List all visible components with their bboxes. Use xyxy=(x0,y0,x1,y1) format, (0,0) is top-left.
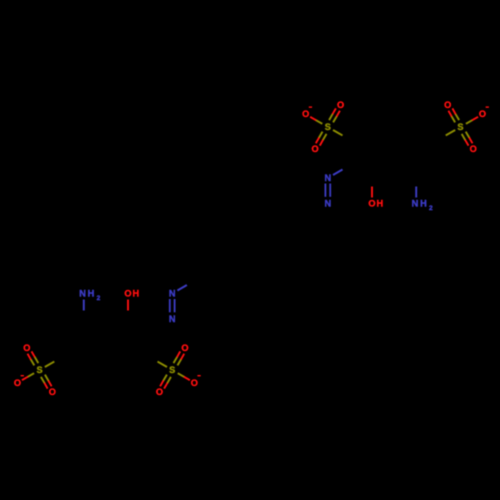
svg-text:S: S xyxy=(325,122,331,132)
svg-text:H: H xyxy=(132,289,139,299)
svg-text:O: O xyxy=(191,378,198,388)
svg-text:N: N xyxy=(79,289,86,299)
svg-text:N: N xyxy=(324,199,331,209)
svg-text:S: S xyxy=(169,365,175,375)
svg-text:H: H xyxy=(420,199,427,209)
svg-text:O: O xyxy=(312,144,319,154)
svg-text:N: N xyxy=(412,199,419,209)
svg-text:O: O xyxy=(479,109,486,119)
svg-text:O: O xyxy=(156,387,163,397)
svg-text:H: H xyxy=(376,199,383,209)
svg-text:N: N xyxy=(324,173,331,183)
svg-text:S: S xyxy=(457,122,463,132)
svg-text:O: O xyxy=(302,109,309,119)
svg-text:2: 2 xyxy=(429,205,433,212)
svg-text:O: O xyxy=(23,343,30,353)
svg-text:N: N xyxy=(169,289,176,299)
svg-text:O: O xyxy=(124,289,131,299)
svg-text:H: H xyxy=(88,289,95,299)
svg-text:O: O xyxy=(337,100,344,110)
svg-text:O: O xyxy=(368,199,375,209)
svg-text:O: O xyxy=(14,378,21,388)
svg-text:O: O xyxy=(444,100,451,110)
svg-text:2: 2 xyxy=(97,295,101,302)
svg-text:O: O xyxy=(181,343,188,353)
svg-text:N: N xyxy=(169,314,176,324)
svg-text:O: O xyxy=(470,144,477,154)
svg-text:O: O xyxy=(49,387,56,397)
svg-text:S: S xyxy=(37,365,43,375)
